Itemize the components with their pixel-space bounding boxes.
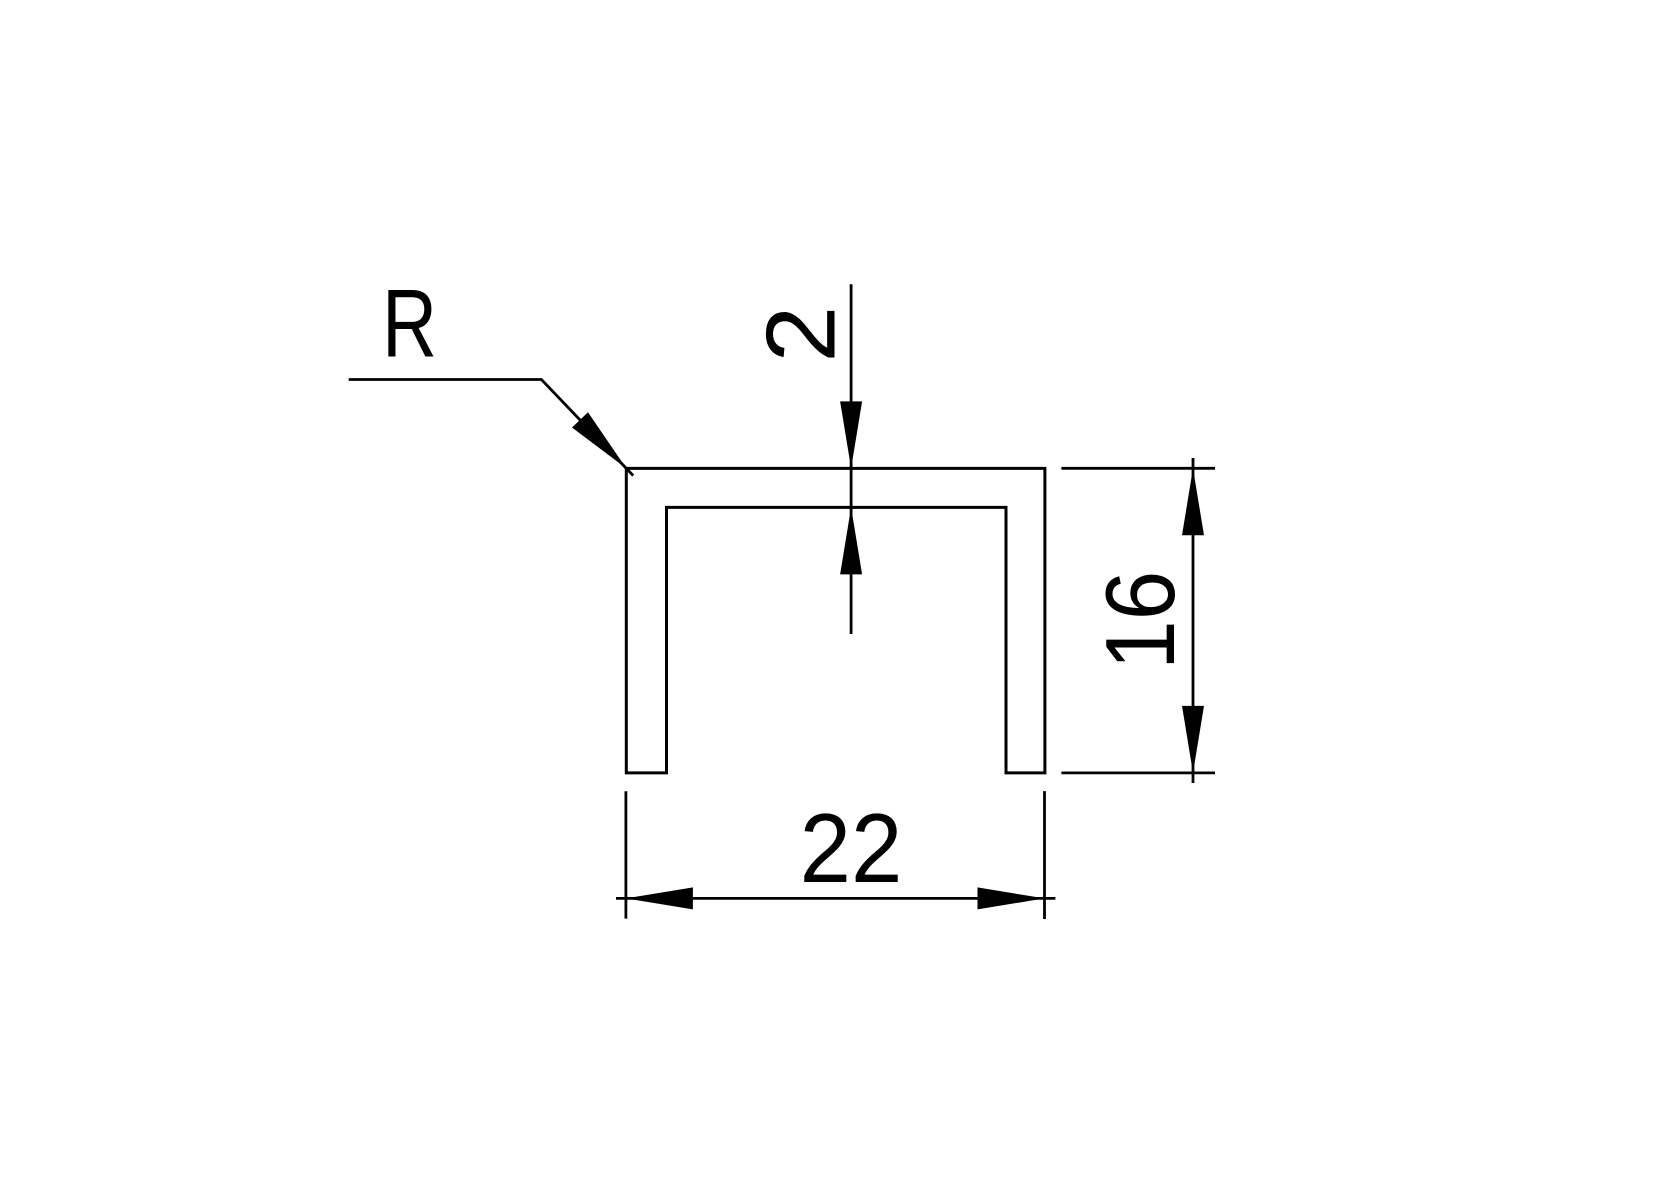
svg-text:R: R [382,270,437,378]
dimension line 16 [1192,458,1195,783]
U-channel profile outline [626,468,1045,773]
dimension line 2 (wall thickness) [850,284,853,634]
arrowhead 22 left (pointing left) [626,887,693,909]
svg-text:16: 16 [1085,571,1195,670]
svg-text:22: 22 [800,793,903,903]
leader arrowhead [572,412,626,468]
extension line 22 left [625,791,628,918]
arrowhead 16 bottom (pointing down) [1182,706,1204,773]
extension line 22 right [1043,791,1046,919]
dimension line 22 [616,897,1055,900]
extension line 16 top [1061,467,1215,470]
arrowhead 16 top (pointing up) [1182,468,1204,535]
arrowhead 2 lower (pointing up) [840,507,862,574]
svg-text:2: 2 [746,306,856,363]
extension line 16 bottom [1061,772,1215,775]
leader line for R [349,380,634,476]
arrowhead 22 right (pointing right) [978,887,1045,909]
arrowhead 2 upper (pointing down) [840,401,862,468]
